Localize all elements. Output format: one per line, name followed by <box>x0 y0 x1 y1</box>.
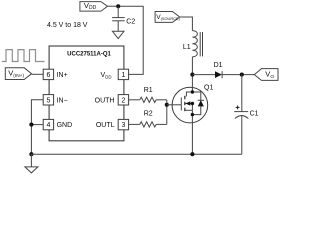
svg-text:OUTL: OUTL <box>96 122 115 129</box>
net VO tag <box>254 69 278 81</box>
pin 1 box <box>118 69 128 79</box>
svg-text:L1: L1 <box>183 44 191 51</box>
svg-text:C2: C2 <box>126 19 135 26</box>
inductor L1 <box>192 31 202 57</box>
ground (C2) <box>112 31 124 38</box>
node rail left junction <box>29 152 33 156</box>
op-amp U1 UCC27511A-Q1 IC body <box>49 46 124 141</box>
wire VSOURCE to L1 <box>180 17 193 31</box>
wire gate lead <box>167 104 182 106</box>
svg-text:2: 2 <box>121 97 125 104</box>
resistor R2 <box>129 122 167 127</box>
pin 4 box <box>43 119 53 129</box>
node gate junction <box>165 103 169 107</box>
svg-text:3: 3 <box>121 122 125 129</box>
resistor R1 <box>129 97 167 102</box>
capacitor C2 <box>112 18 125 32</box>
svg-text:VO: VO <box>265 70 274 80</box>
net VIN+ tag <box>5 68 31 80</box>
wire VDD tag to junction to corner <box>108 6 144 74</box>
wire ground stub <box>30 154 32 167</box>
node VDD junction dot <box>116 4 120 8</box>
svg-text:R2: R2 <box>144 110 153 117</box>
waveform input square wave <box>2 50 45 62</box>
svg-text:4.5 V to 18 V: 4.5 V to 18 V <box>47 22 88 29</box>
node drain junction <box>190 73 194 77</box>
pin 5 box <box>43 95 53 105</box>
pin 3 box <box>118 119 128 129</box>
pin 2 box <box>118 95 128 105</box>
svg-text:UCC27511A-Q1: UCC27511A-Q1 <box>67 51 111 57</box>
node pin4 junction <box>29 123 33 127</box>
svg-text:GND: GND <box>57 122 73 129</box>
svg-text:R1: R1 <box>144 87 153 94</box>
capacitor C1 <box>234 112 248 155</box>
wire D1 to VO <box>222 74 254 76</box>
net VDD tag <box>80 2 108 12</box>
net VSOURCE tag <box>155 12 180 23</box>
wire drain node to D1 <box>192 74 215 76</box>
svg-text:D1: D1 <box>214 62 223 69</box>
node output junction <box>240 73 244 77</box>
wire VIN+ to pin6 <box>32 73 44 75</box>
svg-text:VDD: VDD <box>84 1 97 11</box>
svg-text:V(IN+): V(IN+) <box>8 68 24 79</box>
wire L1 to drain node <box>191 57 193 75</box>
svg-text:Q1: Q1 <box>204 85 213 92</box>
svg-text:C1: C1 <box>250 111 259 118</box>
wire bottom ground rail <box>31 153 241 155</box>
svg-text:VDD: VDD <box>101 72 112 79</box>
svg-text:IN+: IN+ <box>57 72 68 79</box>
wire pin4 to left rail <box>31 124 43 126</box>
svg-text:IN−: IN− <box>57 97 68 104</box>
wire C2 stub <box>117 6 119 17</box>
wire R1-R2 tie <box>166 100 168 125</box>
transistor Q1 MOSFET <box>172 75 208 155</box>
svg-text:6: 6 <box>46 72 50 79</box>
ground (main) <box>25 167 38 173</box>
diode D1 <box>215 71 222 78</box>
pin 6 box <box>43 69 53 79</box>
svg-text:1: 1 <box>121 72 125 79</box>
svg-text:5: 5 <box>46 97 50 104</box>
label C1 polarity <box>236 106 240 110</box>
svg-text:OUTH: OUTH <box>95 97 115 104</box>
wire pin5 to left rail <box>31 100 43 154</box>
wire output to C1 <box>241 75 243 112</box>
svg-text:4: 4 <box>46 122 50 129</box>
node source-rail junction <box>190 152 194 156</box>
